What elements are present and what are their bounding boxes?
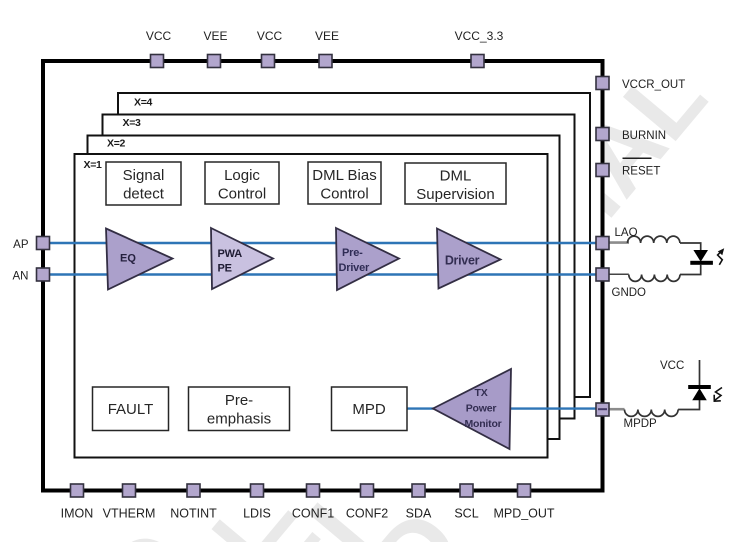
pin LDIS: [251, 484, 264, 497]
svg-text:VCCR_OUT: VCCR_OUT: [622, 79, 685, 91]
inductor L2 (GNDO): [629, 275, 680, 282]
svg-text:Driver: Driver: [445, 254, 480, 268]
svg-text:SCL: SCL: [454, 507, 478, 521]
pin VCCR_OUT: [596, 77, 609, 90]
svg-text:X=1: X=1: [84, 159, 103, 171]
channel box X=3: [103, 115, 575, 419]
svg-text:DML: DML: [440, 168, 472, 185]
svg-text:MPD: MPD: [352, 401, 386, 418]
svg-text:AN: AN: [13, 271, 29, 283]
svg-text:VCC: VCC: [146, 29, 172, 43]
block DML Bias Control: [308, 162, 381, 204]
svg-text:Pre-: Pre-: [342, 247, 363, 259]
pin RESET: [596, 164, 609, 177]
light emission arrow (laser): [718, 251, 723, 265]
svg-text:SDA: SDA: [406, 507, 432, 521]
svg-text:TX: TX: [474, 387, 487, 399]
svg-text:LDIS: LDIS: [243, 507, 271, 521]
photodiode D2: [688, 385, 711, 400]
svg-text:NOTINT: NOTINT: [170, 507, 217, 521]
svg-text:Pre-: Pre-: [225, 392, 253, 409]
svg-text:detect: detect: [123, 186, 165, 203]
pin NOTINT: [187, 484, 200, 497]
wire to laser diode: [680, 243, 701, 251]
pin MPD_OUT: [518, 484, 531, 497]
block FAULT: [93, 387, 169, 431]
svg-text:VCC: VCC: [257, 29, 283, 43]
svg-text:IMON: IMON: [61, 507, 94, 521]
pin VCC_3.3: [471, 55, 484, 68]
svg-text:Control: Control: [320, 186, 368, 203]
svg-text:EQ: EQ: [120, 253, 136, 265]
pin SDA: [412, 484, 425, 497]
pin IMON: [71, 484, 84, 497]
channel box X=1: [75, 154, 548, 458]
pin CONF2: [361, 484, 374, 497]
pin BURNIN: [596, 128, 609, 141]
svg-text:MPD_OUT: MPD_OUT: [493, 507, 554, 521]
pin VCC (top 1): [151, 55, 164, 68]
wire GNDO external: [609, 273, 629, 275]
svg-text:LAO: LAO: [615, 227, 638, 239]
svg-text:Signal: Signal: [123, 167, 165, 184]
svg-text:RESET: RESET: [622, 166, 660, 178]
svg-text:VEE: VEE: [315, 29, 339, 43]
wire AN line: [43, 273, 602, 275]
wire LAO external top: [609, 241, 629, 244]
svg-text:Control: Control: [218, 186, 266, 203]
amplifier TX Power Monitor: [433, 369, 511, 449]
svg-text:CONF1: CONF1: [292, 507, 334, 521]
pin AN: [37, 268, 50, 281]
svg-text:Logic: Logic: [224, 167, 260, 184]
svg-text:VCC_3.3: VCC_3.3: [455, 29, 504, 43]
pin GNDO: [596, 268, 609, 281]
svg-text:CONF2: CONF2: [346, 507, 388, 521]
chip outline U1: [43, 61, 603, 491]
pin VTHERM: [123, 484, 136, 497]
svg-text:Monitor: Monitor: [464, 418, 501, 430]
overline RESET: [623, 157, 652, 159]
light incidence arrow (photodiode): [715, 388, 722, 401]
amplifier Driver: [437, 229, 501, 289]
svg-text:MPDP: MPDP: [624, 418, 658, 430]
pin VEE (top 2): [208, 55, 221, 68]
amplifier PWA PE: [211, 228, 273, 289]
block Signal detect: [106, 162, 181, 205]
pin VEE (top 4): [319, 55, 332, 68]
pin LAO: [596, 237, 609, 250]
pin CONF1: [307, 484, 320, 497]
wire MPDP external: [609, 408, 625, 411]
svg-text:Power: Power: [466, 403, 497, 415]
svg-text:VCC: VCC: [660, 360, 684, 372]
inductor L1 (LAO): [628, 236, 680, 243]
wire MPDP to photodiode: [678, 400, 699, 410]
svg-text:VTHERM: VTHERM: [103, 507, 156, 521]
channel box X=2: [88, 136, 560, 440]
amplifier Pre-Driver: [336, 228, 399, 290]
svg-text:DML Bias: DML Bias: [312, 167, 376, 184]
amplifier EQ: [106, 229, 173, 290]
wire laser diode to GNDO: [680, 265, 701, 275]
svg-text:X=3: X=3: [123, 117, 142, 129]
wire AP line: [43, 242, 602, 244]
channel box X=4: [118, 93, 590, 397]
laser diode D1: [690, 251, 713, 265]
svg-text:X=2: X=2: [107, 138, 126, 150]
pin SCL: [460, 484, 473, 497]
pin VCC (top 3): [262, 55, 275, 68]
svg-text:X=4: X=4: [134, 97, 153, 109]
inductor L3 (MPDP): [625, 410, 679, 417]
block Logic Control: [205, 162, 279, 204]
svg-text:GNDO: GNDO: [612, 287, 647, 299]
wire MPD monitor line: [407, 407, 602, 409]
block Pre-emphasis: [189, 387, 290, 431]
svg-text:VEE: VEE: [203, 29, 227, 43]
block MPD: [332, 387, 408, 431]
svg-text:PE: PE: [218, 263, 232, 275]
svg-text:Supervision: Supervision: [416, 186, 494, 203]
svg-text:FAULT: FAULT: [108, 401, 154, 418]
svg-text:Driver: Driver: [339, 262, 371, 274]
block DML Supervision: [405, 163, 506, 204]
svg-text:PWA: PWA: [218, 248, 243, 260]
svg-text:AP: AP: [13, 239, 29, 251]
pin MPDP: [596, 403, 609, 416]
wire photodiode to VCC: [699, 360, 701, 385]
svg-text:emphasis: emphasis: [207, 411, 271, 428]
pin AP: [37, 237, 50, 250]
svg-text:BURNIN: BURNIN: [622, 130, 666, 142]
